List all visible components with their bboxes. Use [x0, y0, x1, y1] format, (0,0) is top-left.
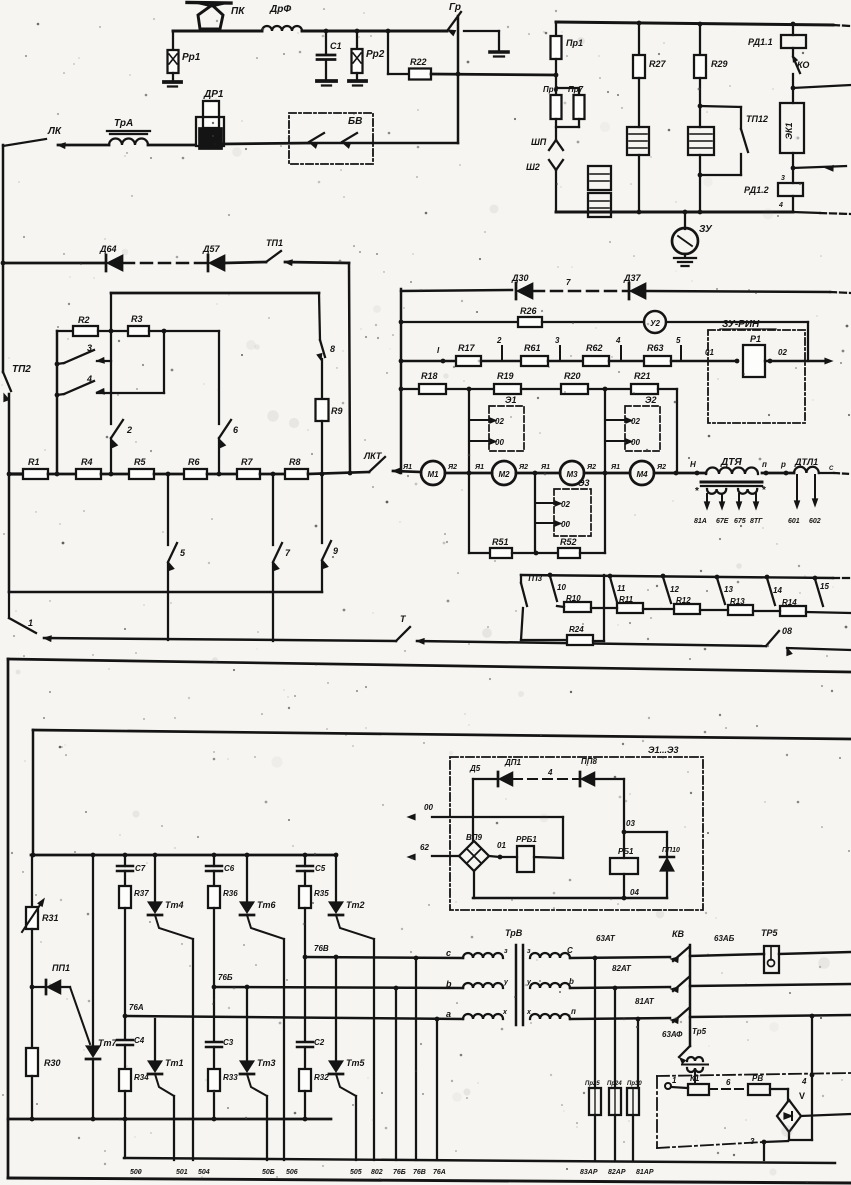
- transformer TrA (ТрА): [107, 131, 150, 145]
- label E2: [645, 395, 656, 405]
- label pin 3: [781, 175, 785, 182]
- TrV primary winding a: [463, 1014, 503, 1019]
- label R4: [81, 457, 93, 467]
- outer frame top: [8, 659, 851, 672]
- svg-text:Н: Н: [690, 460, 696, 469]
- svg-text:601: 601: [788, 518, 800, 525]
- relay boxes Vb1 Vb6: [588, 166, 611, 217]
- resistor R9: [316, 399, 329, 421]
- label c phase: [446, 948, 451, 958]
- label R27: [649, 59, 667, 69]
- resistor R36: [208, 886, 220, 908]
- wire KV b right: [690, 984, 851, 986]
- resistor R29: [694, 24, 706, 78]
- dashed wire DP1-PP8: [513, 768, 580, 779]
- wire R22 to Pr1: [431, 72, 556, 77]
- svg-text:02: 02: [631, 417, 640, 426]
- label VP9: [466, 833, 483, 842]
- wire M1-M2: [445, 464, 492, 475]
- svg-text:ВП9: ВП9: [466, 833, 483, 842]
- label R6: [188, 457, 200, 467]
- label b phase: [446, 979, 452, 989]
- label 63AT: [596, 934, 616, 943]
- svg-text:К1: К1: [690, 1074, 700, 1083]
- tap 5: [676, 336, 681, 361]
- strip drop 76V vertical: [415, 958, 417, 1160]
- svg-text:R37: R37: [134, 889, 149, 898]
- svg-text:У2: У2: [650, 319, 660, 328]
- label P1: [750, 334, 761, 344]
- switch Gr (Гр): [447, 12, 461, 35]
- dashed wire D30-D37: [533, 290, 629, 292]
- switch KV (КВ) c: [671, 947, 689, 962]
- svg-text:67Е: 67Е: [716, 518, 729, 525]
- wire to D64: [3, 262, 106, 265]
- wire to K1: [671, 1087, 688, 1088]
- switch 8 on top-line branch: [317, 293, 325, 360]
- label 7 tap: [566, 278, 571, 287]
- svg-text:76Б: 76Б: [393, 1169, 406, 1176]
- label R18: [421, 371, 438, 381]
- resistor R61: [521, 356, 548, 366]
- bridge VP9 (ВП9): [459, 841, 489, 871]
- svg-text:Я1: Я1: [610, 464, 620, 471]
- resistor R26: [518, 317, 542, 327]
- svg-text:506: 506: [286, 1169, 298, 1176]
- thyristor Tt7 (Тт7): [86, 855, 100, 1119]
- label R3: [131, 314, 143, 324]
- switch 63AF (63АФ): [679, 1046, 690, 1063]
- svg-text:R9: R9: [331, 406, 343, 416]
- svg-text:ДрФ: ДрФ: [269, 4, 291, 15]
- svg-text:з: з: [504, 948, 508, 955]
- wire DTYa to DTL1: [762, 471, 794, 476]
- svg-text:п: п: [762, 460, 767, 469]
- label 9: [333, 546, 338, 556]
- svg-text:R1: R1: [28, 457, 40, 467]
- svg-text:ШП: ШП: [531, 137, 547, 147]
- resistor R32: [299, 1069, 311, 1091]
- label R52: [560, 537, 577, 547]
- capacitor C6: [206, 855, 222, 886]
- wire 3 node to strip: [763, 1142, 765, 1160]
- label PP1: [52, 963, 70, 973]
- label DTYa: [720, 457, 742, 468]
- resistor R7: [237, 469, 260, 479]
- switch KO (КО): [791, 48, 800, 90]
- resistor R11: [617, 603, 643, 613]
- svg-text:R21: R21: [634, 371, 651, 381]
- label 81AT: [635, 997, 655, 1006]
- resistor R6: [184, 469, 207, 479]
- svg-text:R11: R11: [619, 595, 634, 604]
- dashed wire D64-D57: [123, 262, 208, 264]
- svg-text:Рр2: Рр2: [366, 49, 385, 60]
- relay RB1 (РБ1): [610, 832, 638, 900]
- svg-text:Э1: Э1: [505, 395, 516, 405]
- switch 6: [219, 420, 231, 447]
- switch 10: [550, 576, 566, 601]
- main bus with R1-R8: [7, 472, 23, 477]
- bell ZU (ЗУ): [672, 212, 698, 266]
- resistor R21: [631, 384, 658, 394]
- svg-text:R52: R52: [560, 537, 577, 547]
- svg-text:М1: М1: [427, 470, 439, 479]
- svg-text:1: 1: [672, 1076, 677, 1085]
- label K1: [690, 1074, 700, 1083]
- thyristor bus: [31, 853, 339, 858]
- svg-text:С7: С7: [135, 864, 146, 873]
- label 4 node: [801, 1073, 814, 1086]
- label Tt5: [346, 1058, 366, 1068]
- phase line 76B (76Б): [214, 985, 463, 991]
- svg-text:7: 7: [566, 278, 571, 287]
- wire R1-R4: [48, 472, 76, 477]
- label 00: [424, 803, 433, 812]
- wire R24 corner up: [593, 575, 604, 641]
- motor line from LKT: [393, 464, 421, 472]
- wire R19-R20: [521, 388, 561, 390]
- label R33: [223, 1073, 238, 1082]
- wire 4 to R3 node: [163, 331, 165, 393]
- svg-text:КВ: КВ: [672, 929, 685, 939]
- svg-text:РД1.1: РД1.1: [748, 37, 773, 47]
- thyristor Tt5 (Тт5): [329, 957, 356, 1160]
- wire pantograph to DrF: [173, 31, 262, 50]
- wire coil Mb1 to rail: [638, 155, 640, 212]
- label 76B: [218, 973, 233, 982]
- resistor R18: [419, 384, 446, 394]
- wire TR5 right: [779, 952, 851, 954]
- svg-text:БВ: БВ: [348, 116, 362, 127]
- switch 11: [610, 577, 626, 602]
- svg-text:R36: R36: [223, 889, 238, 898]
- thyristor Tt3 (Тт3): [240, 987, 267, 1160]
- svg-text:R3: R3: [131, 314, 143, 324]
- svg-text:505: 505: [350, 1169, 362, 1176]
- switch 12: [663, 577, 679, 603]
- label R20: [564, 371, 581, 381]
- svg-text:R22: R22: [410, 57, 427, 67]
- label Tr5: [692, 1027, 707, 1036]
- thyristor Tt6 (Тт6): [240, 855, 284, 1160]
- wire RD1.2 to rail: [792, 196, 794, 212]
- fuse Pr25: [589, 1088, 601, 1115]
- svg-text:10: 10: [557, 583, 566, 592]
- svg-text:4: 4: [778, 202, 783, 209]
- svg-text:ТП2: ТП2: [12, 364, 31, 375]
- svg-text:ТрВ: ТрВ: [505, 928, 523, 938]
- wire R8 to LKT: [308, 471, 369, 477]
- wire R20-R21: [588, 387, 631, 392]
- wire R2 row left: [55, 331, 73, 474]
- label R35: [314, 889, 329, 898]
- capacitor C4: [117, 1016, 133, 1069]
- label Tt7: [98, 1038, 118, 1048]
- label R5: [134, 457, 146, 467]
- svg-text:02: 02: [778, 348, 787, 357]
- svg-text:Тт1: Тт1: [165, 1058, 184, 1068]
- wire M3-M4: [584, 464, 630, 475]
- vertical M3-M4 to E2: [604, 389, 606, 553]
- fuse Rr2 (Рр2): [349, 31, 366, 86]
- svg-text:62: 62: [420, 843, 429, 852]
- plug ShP (ШП): [549, 140, 563, 150]
- switch LKT (ЛКТ): [369, 457, 400, 474]
- wire 62 output: [408, 854, 502, 859]
- label R22: [410, 57, 427, 67]
- svg-text:Я1: Я1: [402, 464, 412, 471]
- switch 14: [767, 578, 782, 605]
- svg-text:С1: С1: [330, 41, 342, 51]
- label BV: [348, 116, 362, 127]
- label Ya2 M1: [447, 464, 457, 471]
- label 82AT: [612, 964, 632, 973]
- strip drop 76A vertical: [436, 1019, 438, 1160]
- unit E1 (Э1) box: [469, 406, 524, 451]
- wire R27 to coil: [638, 78, 640, 127]
- label R61: [524, 343, 541, 353]
- svg-text:14: 14: [773, 586, 782, 595]
- switch 2: [111, 420, 123, 447]
- svg-text:R32: R32: [314, 1073, 329, 1082]
- coil Mb1: [627, 127, 649, 155]
- label PP8: [581, 757, 598, 766]
- svg-text:76В: 76В: [413, 1169, 426, 1176]
- capacitor C1: [317, 31, 336, 86]
- svg-text:76Б: 76Б: [218, 973, 233, 982]
- device U2 (У2): [644, 311, 666, 333]
- svg-text:V: V: [799, 1091, 805, 1101]
- label RD1.1: [748, 37, 773, 47]
- label ZU: [699, 224, 713, 235]
- label DR1: [203, 89, 224, 100]
- top tap line: [521, 573, 851, 581]
- label Rr2: [366, 49, 385, 60]
- contactor EK1 (ЭК1): [780, 88, 804, 153]
- wire D37 right: [646, 291, 851, 293]
- top line of left network: [111, 292, 319, 295]
- svg-text:ЛК: ЛК: [47, 126, 62, 137]
- tap 2: [496, 336, 502, 361]
- svg-text:С: С: [567, 946, 573, 955]
- label C2: [314, 1038, 325, 1047]
- svg-text:76В: 76В: [314, 944, 329, 953]
- svg-text:6: 6: [726, 1078, 731, 1087]
- svg-text:Я2: Я2: [586, 464, 596, 471]
- svg-text:R63: R63: [647, 343, 664, 353]
- wire top left vertical: [473, 779, 497, 841]
- svg-text:Д37: Д37: [623, 273, 642, 283]
- label 3: [87, 343, 92, 353]
- wire R6-R7: [207, 472, 237, 477]
- label R11: [619, 595, 634, 604]
- svg-text:63АТ: 63АТ: [596, 934, 616, 943]
- wire R9 to bus: [321, 421, 323, 474]
- switch 7 branch: [273, 474, 282, 641]
- chain wire bridge bottom left: [657, 1076, 788, 1148]
- svg-text:82АТ: 82АТ: [612, 964, 632, 973]
- label RB1: [618, 847, 634, 856]
- vertical M1-M2 to E1: [468, 389, 470, 553]
- svg-text:01: 01: [497, 841, 506, 850]
- bottom rail of top-right block: [556, 210, 851, 215]
- label R29: [711, 59, 728, 69]
- label DP1: [504, 758, 522, 767]
- svg-text:c: c: [446, 948, 451, 958]
- wire Gr vertical: [457, 16, 459, 143]
- resistor R20: [561, 384, 588, 394]
- gate wire to Tt7: [70, 987, 90, 1044]
- svg-text:81АТ: 81АТ: [635, 997, 655, 1006]
- fuse Pr1 (Пр1): [551, 22, 562, 77]
- svg-text:76А: 76А: [129, 1003, 144, 1012]
- svg-text:76А: 76А: [433, 1169, 446, 1176]
- label R34: [134, 1073, 149, 1082]
- label 01 node: [497, 841, 506, 850]
- resistor R1: [23, 469, 48, 479]
- wire TP3 to R24: [521, 639, 567, 641]
- label TP3: [527, 574, 543, 583]
- wire R29 to coil: [698, 78, 703, 127]
- diode DP1 (ДП1): [498, 772, 513, 786]
- resistor R27: [633, 23, 645, 78]
- svg-text:R6: R6: [188, 457, 200, 467]
- svg-text:Пр7: Пр7: [568, 85, 584, 94]
- svg-text:Я1: Я1: [540, 464, 550, 471]
- wire TP1 corner down: [285, 262, 350, 473]
- svg-text:R62: R62: [586, 343, 603, 353]
- labels DTYa leads: [694, 518, 763, 525]
- resistor R63: [644, 356, 671, 366]
- resistor R14: [780, 606, 806, 616]
- svg-text:М4: М4: [636, 470, 648, 479]
- label Tt4: [165, 900, 184, 910]
- wire KV to TR5: [690, 954, 764, 956]
- svg-text:802: 802: [371, 1169, 383, 1176]
- vertical from top line: [110, 293, 112, 474]
- svg-text:РРБ1: РРБ1: [516, 835, 537, 844]
- TrV secondary winding b: [530, 977, 670, 988]
- label D30: [511, 273, 529, 283]
- line T to 08: [417, 641, 766, 646]
- resistor R34: [119, 1069, 131, 1091]
- svg-text:675: 675: [734, 518, 746, 525]
- tap 4: [615, 336, 621, 361]
- wire R4-R5: [101, 472, 129, 477]
- wire R3 corner down: [218, 331, 220, 474]
- svg-text:Пр25: Пр25: [585, 1081, 600, 1087]
- svg-text:13: 13: [724, 585, 733, 594]
- unit E3 (Э3) box: [535, 489, 591, 536]
- svg-text:Э3: Э3: [578, 478, 589, 488]
- switch 15: [815, 579, 829, 606]
- label PK: [231, 6, 245, 17]
- svg-text:Д5: Д5: [469, 764, 481, 773]
- wire branch to R22: [388, 31, 410, 74]
- wire R61-R62: [548, 360, 583, 362]
- svg-text:М2: М2: [498, 470, 510, 479]
- svg-text:8ТГ: 8ТГ: [750, 518, 763, 525]
- svg-text:02: 02: [495, 417, 504, 426]
- chain line relay row: [657, 1073, 851, 1076]
- label R24: [569, 625, 584, 634]
- label C5: [315, 864, 326, 873]
- frame vertical: [399, 289, 404, 473]
- variable resistor R31: [22, 899, 44, 932]
- label I node: [437, 346, 440, 355]
- resistor R4: [76, 469, 101, 479]
- fuse drop 63AT: [593, 956, 598, 1088]
- svg-text:ДР1: ДР1: [203, 89, 224, 100]
- label T: [400, 614, 407, 624]
- label TP12: [746, 114, 768, 124]
- resistor R62: [583, 356, 609, 366]
- svg-text:R27: R27: [649, 59, 667, 69]
- label Ya2 M2: [518, 464, 528, 471]
- svg-text:*: *: [762, 485, 766, 496]
- contactor box BV (БВ): [289, 113, 373, 164]
- svg-text:КО: КО: [797, 60, 809, 70]
- main measuring line: [401, 359, 456, 364]
- TrV primary winding c: [463, 953, 503, 958]
- wire 01 to RRB1: [500, 856, 517, 858]
- resistor R13: [728, 605, 753, 615]
- switch KV b: [671, 977, 689, 992]
- wire R37 to 76A line: [123, 908, 128, 1018]
- resistor R12: [674, 604, 700, 614]
- asterisks DTYa: [695, 485, 766, 497]
- resistor R35: [299, 886, 311, 908]
- wire D57 to TP1: [225, 262, 266, 263]
- label KO: [797, 60, 809, 70]
- tap resistor chain line: [557, 606, 851, 613]
- svg-text:3: 3: [87, 343, 92, 353]
- strip labels left: [130, 1169, 446, 1176]
- label 6: [233, 425, 239, 435]
- capacitor C3: [206, 987, 222, 1069]
- svg-text:02: 02: [561, 500, 570, 509]
- svg-text:Д57: Д57: [202, 244, 221, 254]
- svg-text:М3: М3: [566, 470, 578, 479]
- feeder drop: [32, 730, 34, 855]
- label 7: [285, 548, 291, 558]
- svg-text:С3: С3: [223, 1038, 234, 1047]
- wire R52 corner: [580, 552, 605, 554]
- wire TrA to DR1: [148, 144, 195, 147]
- wire KO right: [793, 85, 851, 88]
- wire R18-R19: [446, 387, 494, 392]
- svg-text:Я2: Я2: [447, 464, 457, 471]
- fuse Pr24: [609, 1088, 621, 1115]
- svg-text:R7: R7: [241, 457, 253, 467]
- socket Sh2 (Ш2): [549, 160, 563, 212]
- label R32: [314, 1073, 329, 1082]
- horizontal node line: [9, 591, 322, 593]
- label 63AB: [714, 934, 735, 943]
- smoothing reactor DR1 (ДР1): [196, 101, 224, 149]
- svg-text:03: 03: [626, 819, 635, 828]
- label 4: [86, 374, 92, 384]
- wire coil Mb2 down: [698, 155, 703, 212]
- svg-text:С2: С2: [314, 1038, 325, 1047]
- svg-text:63АФ: 63АФ: [662, 1030, 683, 1039]
- svg-text:р: р: [780, 460, 786, 469]
- svg-text:ДТЯ: ДТЯ: [720, 457, 742, 468]
- dashed box E1...E3: [450, 757, 703, 910]
- KV common vertical: [689, 945, 691, 1046]
- svg-text:С5: С5: [315, 864, 326, 873]
